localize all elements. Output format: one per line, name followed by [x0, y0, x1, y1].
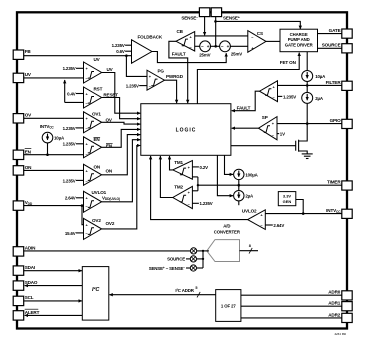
- wire VDD(UVLO) output to LOGIC: [102, 140, 141, 202]
- comparator FT (filter): [260, 81, 278, 102]
- svg-text:0.2V: 0.2V: [200, 165, 209, 170]
- svg-text:I²C ADDR: I²C ADDR: [175, 288, 194, 293]
- value 1.235V to ON -: [63, 178, 84, 183]
- wire between 25mV sources: [211, 45, 220, 47]
- svg-text:OV: OV: [25, 113, 32, 118]
- wire CB- to 25mV source: [195, 45, 200, 47]
- svg-text:ADR2: ADR2: [328, 312, 341, 317]
- svg-text:OV2: OV2: [92, 218, 101, 223]
- svg-text:SDAO: SDAO: [25, 280, 38, 285]
- comparator SP (GPIO): [259, 115, 278, 140]
- svg-text:ADR1: ADR1: [328, 301, 341, 306]
- wire SENSE+ pin down to 25mV sources: [214, 17, 217, 48]
- svg-text:8: 8: [249, 244, 251, 248]
- wire VDD pin to UVLO1- and OV2+: [24, 204, 84, 224]
- wire ON output to LOGIC: [102, 135, 141, 175]
- LOGIC block U10: [141, 104, 231, 156]
- value 1.235V to TM2 -: [192, 201, 212, 206]
- pin ADR2: [328, 312, 352, 322]
- pin GPIO: [330, 118, 353, 129]
- wire SDAO from I2C: [25, 285, 83, 287]
- wire CS output to charge pump: [266, 40, 280, 42]
- ground: [302, 154, 313, 159]
- A/D converter mux: [207, 223, 258, 261]
- value 15.6V to OV2 -: [65, 231, 84, 236]
- svg-text:SENSE+ − SENSE−: SENSE+ − SENSE−: [149, 266, 186, 271]
- wire OV2 output to LOGIC: [102, 146, 141, 229]
- wire SCL to I2C: [24, 300, 82, 302]
- pin ADIN: [13, 246, 36, 256]
- value 0.2V to TM1 +: [192, 165, 208, 170]
- wire SENSE+ to charge pump: [216, 21, 301, 29]
- wire ADR1: [241, 305, 342, 307]
- svg-text:SENSE+: SENSE+: [223, 15, 240, 20]
- pin SENSE+: [211, 8, 240, 21]
- voltage source 25mV (CB offset): [199, 41, 210, 58]
- svg-text:1.235V: 1.235V: [200, 201, 213, 206]
- comparator OV2: [84, 218, 115, 240]
- svg-text:INTVCC: INTVCC: [40, 124, 55, 130]
- svg-text:GPIO: GPIO: [330, 118, 341, 123]
- transistor Q1 (GPIO pulldown FET): [231, 124, 307, 154]
- pin FB: [13, 49, 31, 59]
- 1 OF 27 address decoder block: [216, 290, 241, 322]
- svg-text:PUMP AND: PUMP AND: [288, 37, 310, 42]
- wire CB+ to CS- (sense line): [195, 35, 248, 37]
- svg-text:PG: PG: [158, 68, 165, 73]
- value 2.64V to UVLO2 -: [265, 223, 284, 228]
- svg-text:UV: UV: [107, 67, 114, 72]
- wire SENSE- pin down to sense line: [204, 17, 206, 36]
- svg-text:+: +: [207, 44, 210, 49]
- pin EN (active low): [13, 149, 31, 160]
- pin OV: [13, 113, 32, 123]
- wire ALERT from I2C: [25, 314, 83, 316]
- wire RESET output to LOGIC: [102, 98, 141, 119]
- svg-text:ADIN: ADIN: [25, 246, 36, 251]
- svg-text:SCL: SCL: [25, 295, 34, 300]
- svg-text:1.235V: 1.235V: [63, 126, 76, 131]
- svg-text:2.64V: 2.64V: [273, 223, 284, 228]
- svg-text:1V: 1V: [280, 131, 285, 136]
- wire SDAI to I2C: [24, 270, 82, 272]
- comparator ON: [84, 164, 113, 185]
- wire TM2 output to LOGIC: [160, 156, 172, 198]
- svg-text:SDAI: SDAI: [25, 265, 35, 270]
- svg-text:4261 BD: 4261 BD: [334, 332, 347, 336]
- svg-text:VDD: VDD: [25, 200, 33, 206]
- svg-text:0.6V: 0.6V: [116, 49, 125, 54]
- comparator UVLO1: [84, 190, 120, 212]
- svg-text:1.235V: 1.235V: [63, 142, 76, 147]
- comparator CS: [248, 31, 266, 53]
- svg-text:SOURCE: SOURCE: [167, 257, 185, 262]
- pin VDD: [13, 200, 33, 210]
- svg-text:FILTER: FILTER: [326, 80, 342, 85]
- svg-text:A/D: A/D: [223, 223, 230, 228]
- svg-text:UV: UV: [94, 57, 101, 62]
- pin SOURCE: [322, 43, 352, 53]
- svg-text:GATE DRIVER: GATE DRIVER: [285, 43, 314, 48]
- pin ON: [13, 165, 32, 175]
- svg-text:ON: ON: [25, 165, 32, 170]
- svg-text:FAULT: FAULT: [237, 105, 251, 110]
- op-amp FOLDBACK: [132, 34, 163, 63]
- value 1.235V to EN +: [63, 142, 84, 147]
- svg-text:OV2: OV2: [106, 221, 115, 226]
- svg-text:EN: EN: [25, 149, 32, 154]
- current source 2uA (FILTER pulldown): [302, 85, 324, 123]
- wire OV pin to OV1 +: [24, 117, 84, 119]
- wire 3.3V GEN to INTVCC: [296, 200, 303, 214]
- comparator RST: [84, 87, 119, 108]
- svg-text:I²C: I²C: [92, 286, 100, 293]
- value 1.235V to UV +: [63, 66, 84, 71]
- svg-text:SENSE−: SENSE−: [181, 15, 198, 20]
- wire UV pin to UV- and RST-: [24, 78, 84, 103]
- svg-text:RESET: RESET: [103, 92, 118, 97]
- pin FILTER: [326, 80, 353, 91]
- voltage source 25mV (CS offset): [220, 41, 243, 57]
- svg-text:CHARGE: CHARGE: [290, 32, 308, 37]
- svg-text:10µA: 10µA: [315, 74, 326, 79]
- wire mux input bus: [202, 251, 204, 268]
- svg-text:SOURCE: SOURCE: [322, 43, 341, 48]
- svg-text:2µA: 2µA: [315, 96, 324, 101]
- wire GPIO net: [277, 122, 342, 125]
- svg-text:+: +: [227, 44, 230, 49]
- 3.3V GEN block: [278, 192, 296, 206]
- value 1.235V to OV1 -: [63, 126, 84, 131]
- wire TM inputs bus to TIMER: [192, 177, 198, 191]
- wire EN pin to EN-: [24, 153, 84, 156]
- svg-text:CB: CB: [177, 29, 184, 34]
- comparator TM1: [173, 160, 193, 180]
- svg-text:FET ON: FET ON: [280, 60, 297, 65]
- pin SDAI: [13, 265, 35, 275]
- svg-text:GEN: GEN: [283, 199, 292, 204]
- node SENSE+ - SENSE- into mux: [149, 265, 203, 271]
- wire UVLO2 output to LOGIC: [151, 156, 248, 220]
- svg-text:2.64V: 2.64V: [65, 196, 76, 201]
- wire I2C ADDR bus: [109, 286, 215, 297]
- svg-text:1.235V: 1.235V: [112, 43, 125, 48]
- pin SDAO: [13, 280, 38, 290]
- wire CB output FAULT to LOGIC: [169, 41, 188, 103]
- svg-text:SP: SP: [262, 115, 268, 120]
- value 1.235V to FT -: [278, 94, 297, 99]
- svg-text:0.4V: 0.4V: [67, 91, 76, 96]
- wire PWRGD output to LOGIC: [165, 80, 177, 103]
- wire SP output to LOGIC: [232, 127, 259, 129]
- comparator PG: [147, 68, 184, 90]
- svg-text:1.235V: 1.235V: [126, 83, 139, 88]
- pin ALERT (active low): [13, 309, 39, 320]
- svg-text:ON: ON: [106, 168, 113, 173]
- value 1V to SP -: [277, 131, 285, 136]
- wire TM1 output to LOGIC: [170, 156, 173, 170]
- pin GATE: [329, 28, 353, 38]
- comparator CB: [176, 29, 195, 51]
- svg-text:OV1: OV1: [92, 111, 101, 116]
- svg-text:EN: EN: [94, 137, 101, 142]
- svg-text:3.3V: 3.3V: [283, 193, 292, 198]
- comparator OV1: [84, 111, 113, 132]
- wire ADR0: [241, 294, 342, 296]
- wire OV output to LOGIC: [102, 122, 141, 124]
- current source 2uA (TIMER): [217, 155, 254, 205]
- svg-text:1.235V: 1.235V: [63, 66, 76, 71]
- wire FT output FAULT to LOGIC: [232, 91, 260, 111]
- svg-text:TM1: TM1: [174, 160, 183, 165]
- value 1.235V to PG -: [126, 83, 147, 88]
- comparator EN: [84, 137, 113, 158]
- svg-text:RST: RST: [94, 87, 103, 92]
- pin INTVCC: [326, 208, 352, 218]
- wire GATE: [318, 33, 342, 35]
- svg-text:FAULT: FAULT: [172, 52, 186, 57]
- svg-text:15.6V: 15.6V: [65, 231, 76, 236]
- value 0.4V to RST +: [67, 91, 83, 96]
- svg-text:GATE: GATE: [329, 28, 341, 33]
- comparator UVLO2: [242, 209, 265, 230]
- svg-text:PWRGD: PWRGD: [166, 74, 184, 79]
- svg-text:FOLDBACK: FOLDBACK: [138, 34, 163, 39]
- wire SOURCE: [318, 47, 342, 49]
- node SOURCE into mux: [167, 256, 204, 262]
- pin ADR1: [328, 301, 352, 311]
- wire FET ON from LOGIC to charge pump: [197, 53, 299, 104]
- current source 10uA (FILTER pullup): [302, 52, 326, 86]
- charge pump and gate driver block: [280, 29, 318, 52]
- svg-text:ADR0: ADR0: [328, 290, 341, 295]
- wire FB pin to FOLDBACK and PG: [24, 54, 147, 76]
- wire FOLDBACK output to 25mV source: [152, 52, 226, 63]
- current source 10uA INTVCC pullup: [40, 124, 65, 155]
- svg-text:−: −: [221, 44, 224, 49]
- pin SCL: [13, 295, 34, 305]
- comparator TM2: [173, 185, 193, 209]
- pin TIMER: [327, 180, 352, 190]
- pin SENSE-: [181, 8, 209, 21]
- current source 100uA (TIMER): [225, 155, 259, 190]
- wire 25mV source to CS+: [230, 45, 247, 47]
- svg-text:TIMER: TIMER: [327, 180, 341, 185]
- wire EN output to LOGIC: [102, 129, 141, 147]
- pin ADR0: [328, 290, 352, 300]
- svg-text:1.235V: 1.235V: [63, 178, 76, 183]
- svg-text:FB: FB: [25, 49, 32, 54]
- wire TIMER net: [197, 184, 342, 187]
- svg-text:LOGIC: LOGIC: [176, 128, 197, 134]
- value 0.6V to FOLDBACK: [116, 49, 131, 54]
- wire INTVCC net: [265, 212, 342, 215]
- value 1.235V to FOLDBACK: [112, 43, 132, 48]
- I2C interface block: [82, 267, 109, 321]
- comparator UV: [84, 57, 114, 83]
- svg-text:ON: ON: [94, 164, 101, 169]
- svg-text:TM2: TM2: [174, 185, 183, 190]
- wire ON pin to ON+: [24, 169, 84, 171]
- svg-text:1.235V: 1.235V: [283, 94, 296, 99]
- wire UV output to LOGIC: [102, 73, 141, 114]
- node ADIN into mux: [24, 248, 209, 254]
- svg-text:UV: UV: [25, 72, 32, 77]
- svg-text:UVLO2: UVLO2: [242, 209, 257, 214]
- svg-text:VDD(UVLO): VDD(UVLO): [102, 195, 120, 201]
- wire FILTER net: [278, 84, 342, 87]
- svg-text:5: 5: [195, 286, 197, 290]
- svg-text:100µA: 100µA: [245, 172, 258, 177]
- svg-text:1 OF 27: 1 OF 27: [221, 303, 237, 308]
- svg-text:ALERT: ALERT: [25, 310, 40, 315]
- pin UV: [13, 72, 32, 82]
- svg-text:−: −: [201, 44, 204, 49]
- svg-text:CONVERTER: CONVERTER: [214, 230, 241, 235]
- wire ADR2: [241, 317, 342, 319]
- value 2.64V to UVLO1 +: [65, 196, 84, 201]
- svg-text:25mV: 25mV: [231, 51, 242, 56]
- svg-text:25mV: 25mV: [199, 53, 210, 58]
- svg-text:10µA: 10µA: [54, 136, 65, 141]
- svg-text:2µA: 2µA: [245, 194, 254, 199]
- svg-text:CS: CS: [257, 31, 263, 36]
